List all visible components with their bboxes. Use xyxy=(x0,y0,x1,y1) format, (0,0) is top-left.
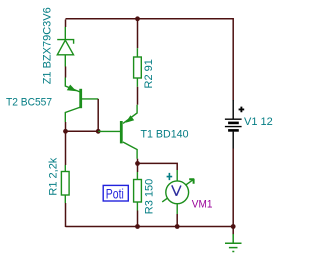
battery V1 xyxy=(225,100,244,149)
resistor R1 xyxy=(61,165,69,203)
wire junction to VM1 xyxy=(138,163,178,170)
voltmeter VM1 circle xyxy=(166,181,189,204)
ground xyxy=(225,234,242,252)
wire base link horizontal xyxy=(66,130,99,132)
wire R2 to T1 emitter xyxy=(137,87,139,105)
wire junction to R3 xyxy=(137,163,139,172)
wire T2 base down xyxy=(97,99,99,131)
wire R3 to bottom rail xyxy=(137,211,139,227)
node bottom R3 junction xyxy=(135,224,140,229)
svg-text:T2 BC557: T2 BC557 xyxy=(6,97,52,109)
transistor T2 xyxy=(65,78,98,123)
node base junction xyxy=(96,129,101,134)
VM1 V glyph xyxy=(172,185,181,196)
wire base to T1 xyxy=(98,130,121,132)
wire zener to T2 emitter xyxy=(65,67,67,78)
wire R1 to bottom rail xyxy=(65,203,67,227)
svg-text:Poti: Poti xyxy=(106,185,124,201)
T1 emitter arrow xyxy=(126,115,135,123)
wire VM1 bottom pin xyxy=(176,204,178,214)
resistor R3 xyxy=(134,172,142,211)
wire ground stub xyxy=(232,227,234,235)
wire bottom rail xyxy=(66,226,234,228)
VM1 arrow line xyxy=(162,180,193,202)
Poti box xyxy=(103,185,128,201)
wire VM1 to bottom rail xyxy=(176,214,178,227)
wire top rail xyxy=(66,19,234,100)
node bottom VM1 junction xyxy=(175,224,180,229)
node top junction xyxy=(135,16,140,21)
svg-text:R2 91: R2 91 xyxy=(143,59,155,88)
wire T1 collector to junction xyxy=(137,159,139,164)
svg-text:T1 BD140: T1 BD140 xyxy=(141,129,189,141)
VM1 arrowhead xyxy=(189,179,194,184)
svg-text:R1 2,2k: R1 2,2k xyxy=(48,157,60,195)
node collector junction xyxy=(135,161,140,166)
svg-text:R3 150: R3 150 xyxy=(144,179,156,214)
transistor T1 xyxy=(121,105,137,159)
resistor R2 xyxy=(134,48,142,87)
VM1 plus mark xyxy=(167,173,173,180)
T2 emitter arrow xyxy=(67,85,77,92)
node bottom ground junction xyxy=(231,224,236,229)
wire top junction to R2 xyxy=(137,19,139,48)
wire VM1 top pin xyxy=(176,170,178,181)
svg-text:VM1: VM1 xyxy=(192,199,213,211)
wire battery to bottom right xyxy=(232,149,234,227)
zener diode Z1 xyxy=(57,27,73,67)
wire junction to R1 xyxy=(65,131,67,165)
node left junction xyxy=(63,129,68,134)
svg-text:V1 12: V1 12 xyxy=(244,116,273,128)
svg-text:Z1 BZX79C3V6: Z1 BZX79C3V6 xyxy=(42,7,54,84)
wire top left to zener xyxy=(65,20,67,28)
wire T2 collector down xyxy=(65,122,67,131)
